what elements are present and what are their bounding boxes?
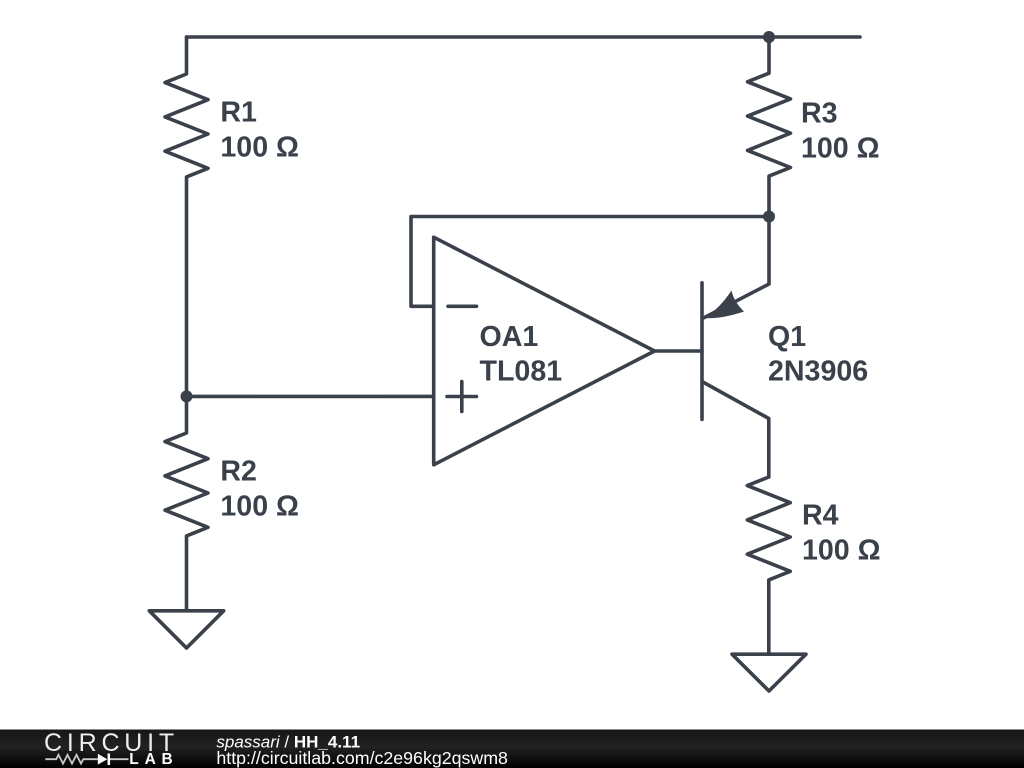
wire plus input: [187, 395, 434, 399]
wire top rail: [187, 35, 861, 39]
svg-text:100 Ω: 100 Ω: [802, 535, 881, 567]
op-amp plus sign: [447, 382, 477, 412]
resistor R3: [748, 37, 791, 217]
node junction dot feedback: [763, 211, 775, 223]
ground GND1: [149, 611, 223, 648]
svg-text:LAB: LAB: [129, 751, 178, 768]
wire feedback: [411, 217, 769, 307]
svg-text:TL081: TL081: [480, 356, 563, 388]
svg-text:Q1: Q1: [768, 321, 806, 353]
footer bar: [0, 730, 1024, 768]
svg-text:100 Ω: 100 Ω: [220, 490, 299, 522]
transistor Q1 emitter wire: [704, 217, 769, 318]
svg-text:R4: R4: [802, 500, 839, 532]
node junction dot top: [763, 31, 775, 43]
wire op-amp output: [655, 349, 703, 353]
transistor Q1 base bar: [700, 283, 704, 420]
logo diode bar: [108, 754, 111, 766]
svg-text:OA1: OA1: [480, 321, 539, 353]
svg-text:R2: R2: [220, 455, 257, 487]
svg-text:R1: R1: [220, 97, 257, 129]
svg-text:2N3906: 2N3906: [768, 356, 868, 388]
svg-text:100 Ω: 100 Ω: [801, 133, 880, 165]
svg-text:R3: R3: [801, 98, 838, 130]
logo diode: [98, 754, 108, 765]
node junction dot left: [181, 390, 193, 402]
resistor R1: [165, 37, 208, 396]
transistor Q1 emitter arrow: [704, 291, 745, 319]
resistor R4: [747, 477, 790, 654]
resistor R2: [165, 396, 208, 610]
op-amp minus sign: [448, 304, 477, 308]
ground GND2: [732, 654, 806, 691]
logo squiggle wire: [45, 755, 128, 764]
transistor Q1 collector wire: [704, 383, 769, 478]
op-amp OA1: [434, 237, 655, 465]
svg-text:100 Ω: 100 Ω: [220, 132, 299, 164]
svg-text:http://circuitlab.com/c2e96kg2: http://circuitlab.com/c2e96kg2qswm8: [216, 748, 508, 768]
